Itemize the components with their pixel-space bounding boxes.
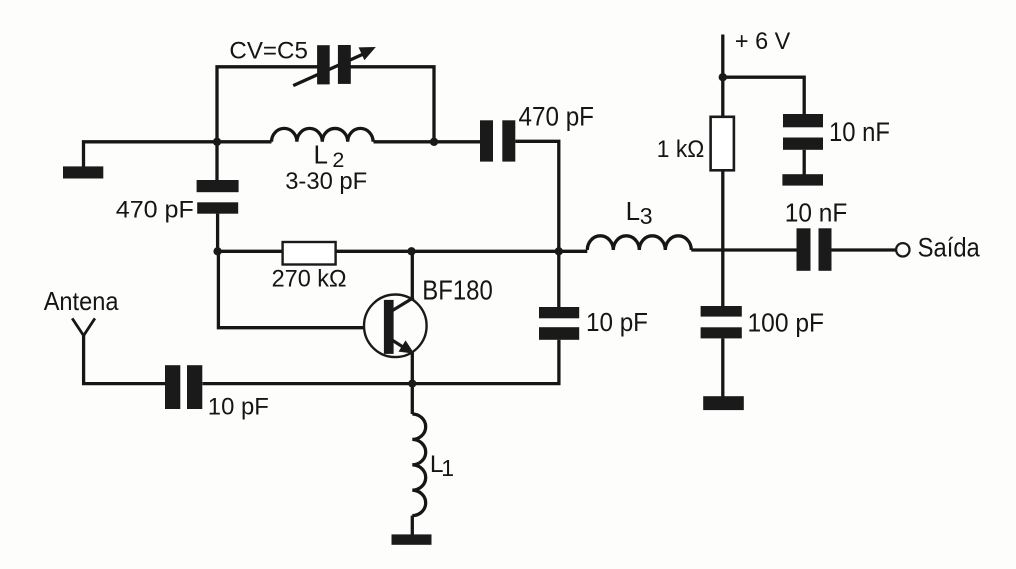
svg-text:BF180: BF180 xyxy=(422,275,493,306)
wire CV right branch xyxy=(351,67,435,142)
output terminal xyxy=(896,243,909,256)
resistor 1k body xyxy=(711,117,734,171)
svg-text:470 pF: 470 pF xyxy=(519,102,595,132)
svg-text:10 pF: 10 pF xyxy=(586,307,648,337)
wire 470pF to bias node xyxy=(216,214,219,252)
svg-text:470 pF: 470 pF xyxy=(116,197,194,224)
capacitor 470 pF coupling plates xyxy=(480,120,515,161)
wire output cap to terminal xyxy=(832,248,897,251)
svg-text:10 nF: 10 nF xyxy=(829,117,890,147)
svg-text:3-30 pF: 3-30 pF xyxy=(285,168,367,195)
resistor 270k body xyxy=(283,242,336,265)
svg-text:Antena: Antena xyxy=(44,286,119,316)
capacitor 100 pF plates xyxy=(701,306,742,338)
inductor L3 xyxy=(587,236,691,250)
node A junction xyxy=(213,138,221,146)
wire 10pF to emitter node and up to 10pF shunt xyxy=(203,340,559,384)
wire emitter down to node xyxy=(411,352,414,385)
node emitter junction xyxy=(408,380,416,388)
svg-text:L: L xyxy=(626,196,640,226)
wire supply node to bypass cap xyxy=(723,77,804,114)
ground left xyxy=(63,166,103,178)
svg-text:10 nF: 10 nF xyxy=(785,198,848,228)
svg-text:1 kΩ: 1 kΩ xyxy=(657,136,705,163)
variable capacitor arrow shaft xyxy=(293,51,369,85)
variable capacitor CV=C5 plates xyxy=(317,45,351,84)
wire top rail from ground to L2 xyxy=(84,142,272,167)
wire resistor to node B xyxy=(336,250,588,253)
wire 100pF to ground xyxy=(721,338,724,396)
svg-text:100 pF: 100 pF xyxy=(748,308,825,338)
svg-text:270 kΩ: 270 kΩ xyxy=(272,266,347,293)
node bias junction xyxy=(213,247,221,255)
wire CV left branch xyxy=(217,67,318,142)
capacitor 10 pF antenna plates xyxy=(165,365,202,409)
svg-text:L: L xyxy=(314,139,328,169)
capacitor 470 pF shunt plates xyxy=(197,180,239,214)
wire 1k resistor down through output line to 100pF xyxy=(721,170,724,306)
wire emitter node to L1 xyxy=(411,384,414,414)
ground under 10nF bypass xyxy=(782,174,823,185)
wire L2 to 470pF coupling cap xyxy=(374,140,481,143)
variable capacitor arrow head xyxy=(359,47,376,60)
capacitor 10 pF shunt plates xyxy=(539,307,579,340)
node collector junction xyxy=(407,247,415,255)
inductor L2 xyxy=(272,128,374,141)
ground under L1 xyxy=(392,534,432,544)
wire bias node down and to base xyxy=(218,251,384,327)
transistor collector stroke xyxy=(392,298,414,312)
wire +6V supply rail xyxy=(721,35,724,117)
wire bypass cap to ground xyxy=(803,150,806,175)
capacitor 10 nF output plates xyxy=(797,228,832,270)
wire node A down to 470pF xyxy=(215,142,218,180)
node B junction xyxy=(555,247,563,255)
transistor emitter stroke xyxy=(392,340,411,352)
antenna mast V xyxy=(72,318,95,335)
inductor L1 xyxy=(412,414,425,516)
node supply junction xyxy=(719,73,727,81)
wire node B down to 10pF shunt xyxy=(557,251,560,307)
svg-text:10 pF: 10 pF xyxy=(208,393,269,420)
svg-text:CV=C5: CV=C5 xyxy=(229,37,308,64)
node top-right junction xyxy=(430,138,438,146)
wire coupling cap to node B xyxy=(515,141,559,251)
wire collector xyxy=(411,251,414,299)
transistor Q1 BF180 xyxy=(364,295,427,358)
wire bias node to resistor xyxy=(218,250,283,253)
ground under 100pF xyxy=(703,396,744,410)
wire antenna to 10pF xyxy=(84,335,166,383)
svg-text:3: 3 xyxy=(640,203,653,229)
svg-text:Saída: Saída xyxy=(918,232,980,262)
svg-text:+ 6 V: + 6 V xyxy=(735,28,790,55)
capacitor 10 nF bypass plates xyxy=(783,114,823,150)
svg-text:1: 1 xyxy=(441,455,454,481)
wire L1 to ground xyxy=(411,516,414,535)
wire L3 to output cap xyxy=(691,248,796,251)
